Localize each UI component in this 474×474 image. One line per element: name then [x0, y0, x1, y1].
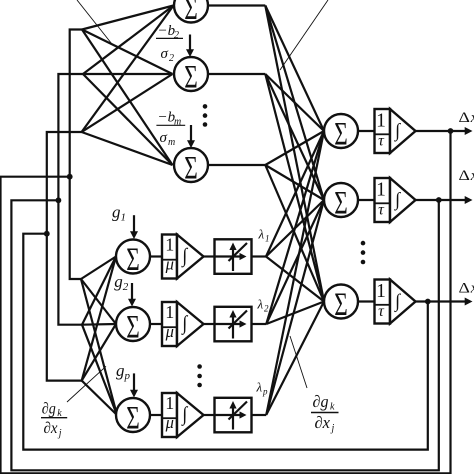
limiter diagonal characteristic row 3 — [229, 402, 248, 420]
summing node U2 (top column) — [174, 57, 208, 91]
gain box 1/mu row 1 — [162, 235, 177, 279]
limiter diagonal characteristic row 1 — [229, 243, 248, 261]
wire dg/dx weight line fan1 to bottom sum node 2 — [81, 279, 116, 324]
wire row-fan1 to right sum node 1 — [265, 6, 324, 132]
wire weight line fanB to top sum node 3 — [83, 74, 173, 165]
limiter horizontal axis with arrow row 1 — [215, 253, 247, 260]
label g2 — [114, 272, 129, 293]
input arrow gp into G3 — [130, 373, 138, 397]
junction dot on bus 2 — [56, 197, 62, 203]
wire weight line fanA to top sum node 1 — [82, 6, 174, 30]
svg-text:Σ: Σ — [184, 60, 198, 96]
gain box 1/mu row 3 — [162, 393, 177, 437]
summing node U1 (top column) — [174, 0, 208, 23]
summing node G3 (bottom-left column) — [116, 398, 150, 432]
wire dg/dx weight line fan3 to bottom sum node 1 — [82, 257, 116, 381]
bias arrow into U2 — [186, 35, 194, 58]
svg-text:1: 1 — [376, 281, 386, 302]
label Delta-x output row 1 — [459, 110, 474, 126]
label dg_k/dx_j (left) denominator — [44, 420, 62, 439]
gain box 1/tau row 2 — [375, 178, 391, 222]
wire row-fan2 to right sum node 1 — [265, 74, 324, 131]
svg-text:∂g: ∂g — [313, 392, 329, 411]
wire lambda2-fan to right sum node 1 — [266, 131, 324, 324]
wire vertical bus 3 (x=46.8) with top corner to fan point and bottom corner to fan point — [47, 132, 82, 381]
wire weight line fanB to top sum node 2 — [83, 73, 173, 75]
svg-text:Σ: Σ — [126, 242, 140, 278]
svg-text:x: x — [470, 168, 474, 184]
svg-text:Σ: Σ — [334, 186, 348, 222]
svg-text:∂g: ∂g — [42, 401, 56, 418]
summing node G1 (bottom-left column) — [116, 240, 150, 274]
wire output of top sum node 3 to its fan point — [208, 164, 265, 166]
svg-text:Σ: Σ — [334, 117, 348, 153]
wire lambda2-fan to right sum node 3 — [266, 302, 324, 325]
input arrow g1 into G1 — [130, 215, 138, 239]
label dg_k/dx_j (left) fraction bar — [41, 417, 67, 419]
sigma symbol of S1 — [334, 117, 348, 153]
svg-text:1: 1 — [165, 235, 174, 255]
integrator triangle row 1 — [390, 109, 416, 153]
leader line from right dg/dx label — [290, 336, 307, 388]
svg-text:σ: σ — [161, 46, 169, 62]
wire S3 to 1/tau box — [358, 300, 375, 302]
wire integrator to limiter row 3 — [204, 414, 215, 416]
svg-text:x: x — [470, 281, 474, 297]
summing node S3 (right column) — [324, 285, 358, 319]
svg-text:−b: −b — [158, 110, 176, 126]
leader line top-right (cropped annotation) — [280, 0, 328, 70]
sigma symbol of G3 — [126, 401, 140, 437]
sigma symbol of S3 — [334, 287, 348, 323]
svg-text:∂x: ∂x — [315, 413, 331, 432]
sigma symbol of U3 — [184, 151, 198, 187]
label -bm/sigmam numerator — [158, 110, 182, 128]
wire row-fan3 to right sum node 2 — [265, 165, 324, 200]
label dg_k/dx_j (right) denominator — [315, 413, 335, 434]
svg-text:1: 1 — [376, 180, 386, 201]
svg-text:μ: μ — [165, 322, 174, 341]
wire weight line fanA to top sum node 2 — [82, 30, 173, 75]
label -b2/sigma2 fraction bar — [156, 37, 183, 39]
wire weight line fanC to top sum node 3 — [82, 132, 173, 165]
wire output of top sum node 2 to its fan point — [208, 73, 265, 75]
sigma symbol of U2 — [184, 60, 198, 96]
wire weight line fanC to top sum node 1 — [82, 6, 174, 133]
label dg_k/dx_j (left) numerator — [42, 401, 63, 420]
ellipsis dots between U2 and U3 — [203, 104, 208, 127]
label Delta-x output row 2 — [459, 168, 474, 184]
svg-text:1: 1 — [165, 393, 174, 413]
wire weight line fanA to top sum node 3 — [82, 30, 173, 166]
svg-text:λ: λ — [258, 227, 265, 242]
svg-text:x: x — [470, 110, 474, 126]
wire G2 to 1/mu box — [150, 323, 162, 325]
wire G1 to 1/mu box — [150, 255, 162, 257]
svg-text:1: 1 — [376, 111, 386, 132]
wire dg/dx weight line fan3 to bottom sum node 3 — [82, 381, 117, 415]
wire G3 to 1/mu box — [150, 414, 162, 416]
summing node S1 (right column) — [324, 114, 358, 148]
wire integrator to limiter row 2 — [204, 323, 215, 325]
wire row-fan3 to right sum node 3 — [265, 165, 324, 302]
wire lambda1-fan to right sum node 3 — [266, 257, 324, 302]
svg-text:μ: μ — [165, 413, 174, 432]
wire limiter row 1 to lambda fan point — [252, 255, 267, 257]
junction dot output row 1 — [448, 128, 454, 134]
wire limiter row 3 to lambda fan point — [252, 414, 267, 416]
wire lambda1-fan to right sum node 1 — [266, 131, 324, 257]
label lambdap — [256, 380, 269, 397]
wire feedback loop 1 (outer) from output row 1 — [1, 131, 451, 473]
svg-text:Σ: Σ — [184, 0, 198, 27]
integrator triangle (mu) row 2 — [177, 302, 204, 346]
summing node S2 (right column) — [324, 183, 358, 217]
limiter vertical axis with arrow row 1 — [229, 243, 236, 272]
label lambda1 — [258, 227, 270, 244]
wire S2 to 1/tau box — [358, 199, 375, 201]
leader line top-left (cropped annotation) — [77, 0, 113, 45]
wire dg/dx weight line fan2 to bottom sum node 2 — [82, 323, 116, 326]
svg-text:Σ: Σ — [184, 151, 198, 187]
limiter box row 1 — [215, 239, 252, 273]
wire feedback loop 2 (middle) from output row 2 — [11, 200, 438, 470]
bias arrow into U3 — [187, 125, 195, 148]
wire dg/dx weight line fan1 to bottom sum node 1 — [81, 257, 116, 280]
label sigma2 denominator — [161, 46, 175, 64]
limiter box row 2 — [215, 307, 252, 342]
limiter vertical axis with arrow row 2 — [229, 310, 236, 339]
svg-text:Σ: Σ — [334, 287, 348, 323]
label gp — [116, 361, 131, 382]
sigma symbol of G2 — [126, 310, 140, 346]
wire feedback loop 3 (inner) from output row 3 — [23, 234, 428, 450]
svg-text:λ: λ — [256, 380, 263, 395]
wire weight line fanC to top sum node 2 — [82, 74, 173, 132]
svg-text:Σ: Σ — [126, 401, 140, 437]
summing node U3 (top column) — [174, 148, 208, 182]
wire lambda3-fan to right sum node 3 — [266, 302, 324, 415]
wire output row 2 with arrow — [416, 196, 473, 204]
junction dot output row 2 — [436, 197, 442, 203]
sigma symbol of S2 — [334, 186, 348, 222]
svg-text:λ: λ — [257, 297, 264, 312]
wire output row 1 with arrow — [416, 127, 473, 135]
label sigmam denominator — [160, 130, 176, 148]
gain box 1/mu row 2 — [162, 302, 177, 346]
summing node G2 (bottom-left column) — [116, 307, 150, 341]
svg-text:m: m — [168, 137, 175, 148]
svg-text:g: g — [116, 361, 125, 380]
svg-text:σ: σ — [160, 130, 168, 146]
wire dg/dx weight line fan2 to bottom sum node 1 — [82, 257, 116, 325]
wire dg/dx weight line fan3 to bottom sum node 2 — [82, 324, 116, 381]
svg-text:g: g — [114, 272, 123, 291]
limiter horizontal axis with arrow row 3 — [215, 411, 247, 418]
svg-text:Δ: Δ — [459, 110, 471, 126]
svg-text:2: 2 — [169, 53, 174, 64]
limiter box row 3 — [215, 398, 252, 433]
junction dot on bus 3 — [44, 231, 50, 237]
svg-text:k: k — [330, 402, 335, 413]
wire lambda1-fan to right sum node 2 — [266, 200, 324, 257]
wire output row 3 with arrow — [416, 298, 473, 306]
label -bm/sigmam fraction bar — [156, 124, 185, 126]
gain box 1/tau row 3 — [375, 280, 391, 324]
input arrow g2 into G2 — [128, 283, 136, 307]
wire integrator to limiter row 1 — [204, 255, 215, 257]
limiter horizontal axis with arrow row 2 — [215, 320, 247, 327]
label lambda2 — [257, 297, 270, 314]
leader line from left dg/dx label — [67, 366, 106, 402]
svg-text:2: 2 — [264, 304, 269, 314]
wire dg/dx weight line fan2 to bottom sum node 3 — [82, 325, 117, 415]
svg-text:p: p — [124, 370, 131, 382]
svg-text:1: 1 — [265, 234, 270, 244]
wire vertical bus 1 (x=69.7) with top corner to fan point and bottom corner to fan point — [70, 30, 82, 280]
svg-text:Δ: Δ — [459, 281, 471, 297]
svg-text:2: 2 — [174, 30, 179, 41]
wire limiter row 2 to lambda fan point — [252, 323, 267, 325]
integrator triangle row 2 — [390, 178, 416, 222]
junction dot on bus 1 — [67, 174, 73, 180]
label Delta-x output row 3 — [459, 281, 474, 297]
label dg_k/dx_j (right) numerator — [313, 392, 336, 413]
wire lambda2-fan to right sum node 2 — [266, 200, 324, 324]
wire weight line fanB to top sum node 1 — [83, 6, 174, 75]
wire row-fan1 to right sum node 3 — [265, 6, 324, 302]
wire vertical bus 2 (x=58.4) with top corner to fan point and bottom corner to fan point — [58, 74, 83, 325]
integrator triangle (mu) row 3 — [177, 393, 204, 437]
sigma symbol of U1 — [184, 0, 198, 27]
junction dot output row 3 — [425, 299, 431, 305]
ellipsis dots between S2 and S3 — [361, 241, 366, 265]
integrator triangle row 3 — [390, 280, 416, 324]
limiter diagonal characteristic row 2 — [229, 311, 248, 329]
wire lambda3-fan to right sum node 2 — [266, 200, 324, 415]
svg-text:2: 2 — [123, 281, 129, 293]
wire row-fan2 to right sum node 2 — [265, 74, 324, 200]
integrator triangle (mu) row 1 — [177, 235, 204, 279]
label -b2/sigma2 numerator — [158, 23, 180, 41]
label g1 — [112, 203, 126, 224]
ellipsis dots between G2 and G3 — [197, 364, 202, 387]
wire row-fan2 to right sum node 3 — [265, 74, 324, 302]
wire row-fan1 to right sum node 2 — [265, 6, 324, 201]
svg-text:−b: −b — [158, 23, 176, 39]
svg-text:g: g — [112, 203, 121, 222]
svg-text:p: p — [262, 387, 268, 397]
svg-text:μ: μ — [165, 254, 174, 273]
wire dg/dx weight line fan1 to bottom sum node 3 — [81, 279, 117, 415]
label dg_k/dx_j (right) fraction bar — [311, 412, 339, 414]
limiter vertical axis with arrow row 3 — [229, 401, 236, 430]
svg-text:1: 1 — [121, 212, 127, 224]
svg-text:Δ: Δ — [459, 168, 471, 184]
wire output of top sum node 1 to its fan point — [208, 4, 265, 6]
svg-text:∂x: ∂x — [44, 420, 58, 437]
gain box 1/tau row 1 — [375, 109, 391, 153]
wire row-fan3 to right sum node 1 — [265, 131, 324, 165]
svg-text:1: 1 — [165, 302, 174, 322]
sigma symbol of G1 — [126, 242, 140, 278]
svg-text:Σ: Σ — [126, 310, 140, 346]
wire S1 to 1/tau box — [358, 130, 375, 132]
wire lambda3-fan to right sum node 1 — [266, 131, 324, 415]
